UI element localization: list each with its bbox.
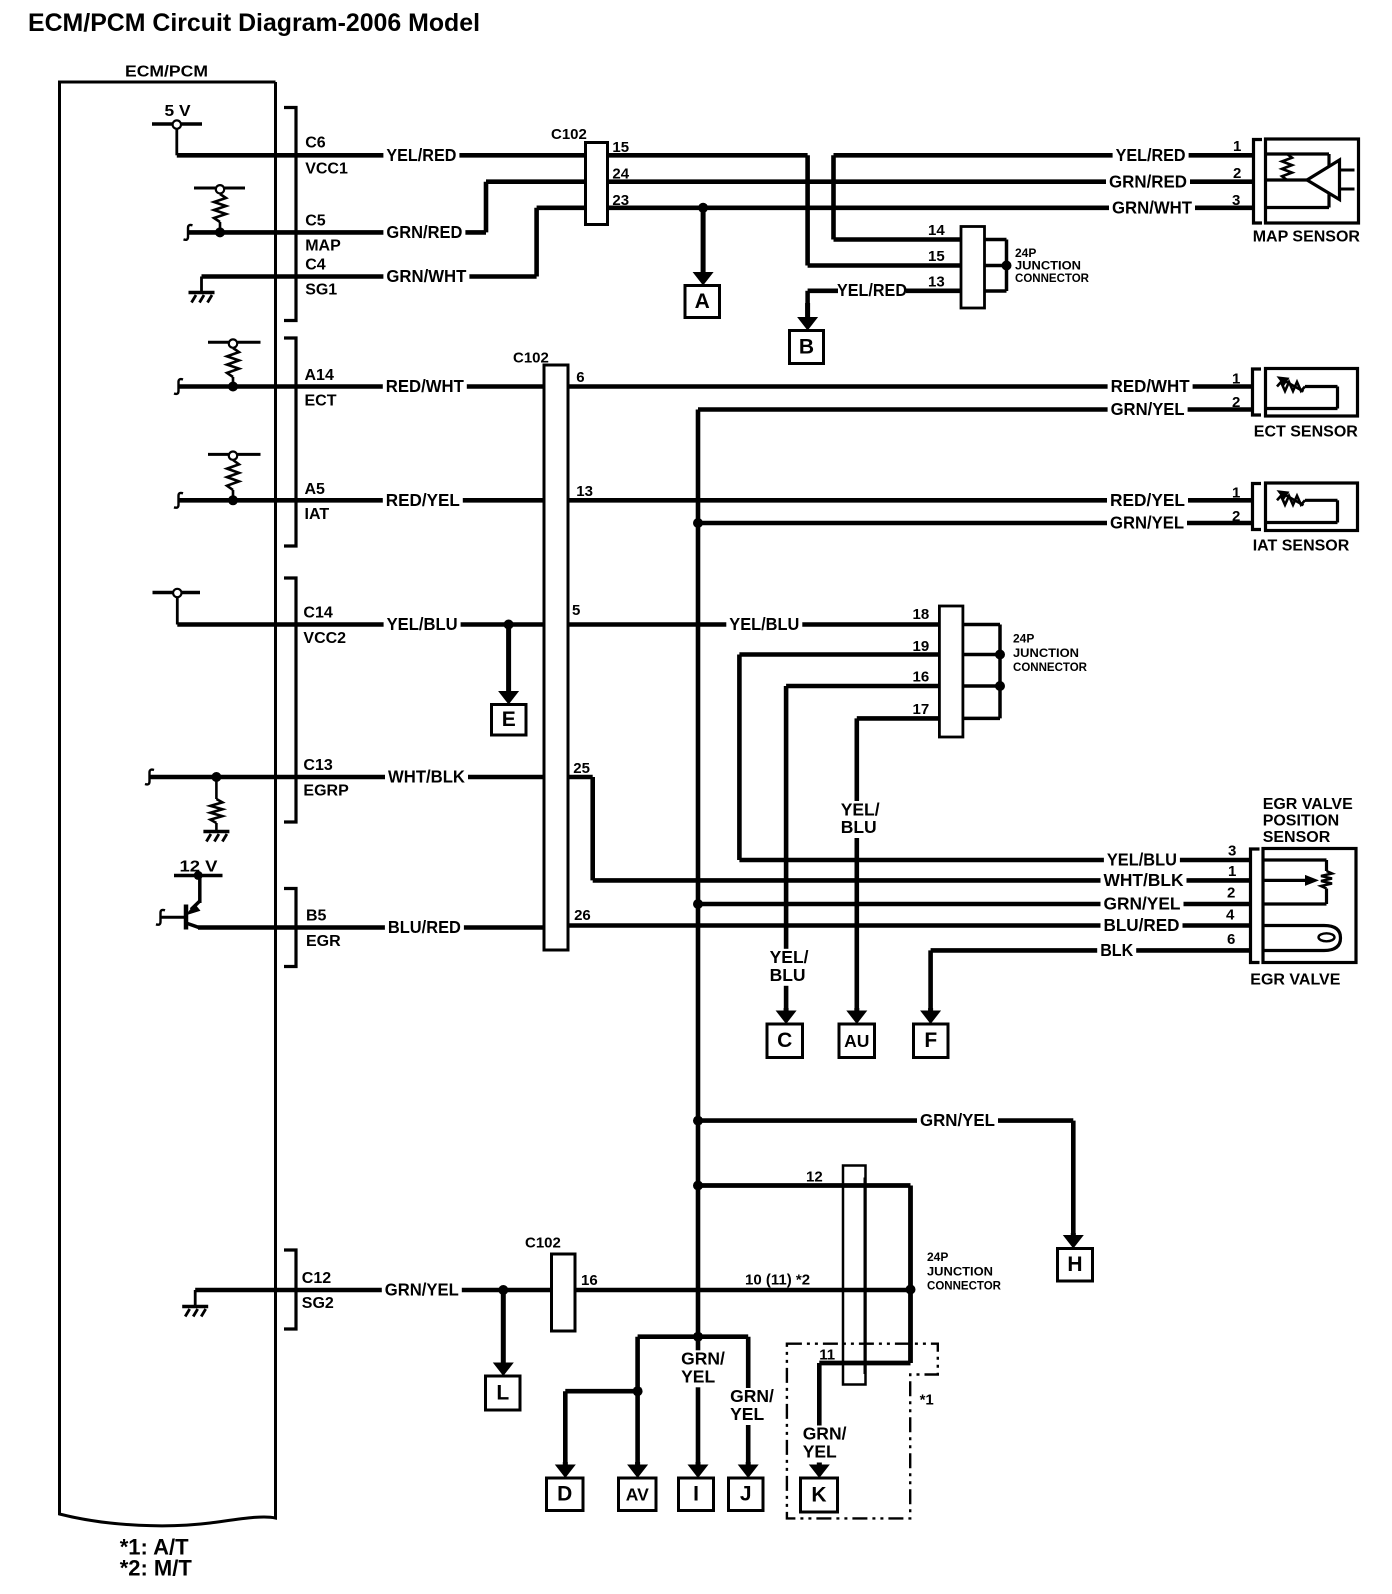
wire label GRN/RED MAP	[1106, 173, 1190, 191]
wire label YEL/BLU C line	[767, 949, 813, 986]
node AU box	[839, 1024, 875, 1058]
junction dot IAT GRN/YEL	[693, 518, 703, 528]
wire label GRN/YEL I line	[679, 1350, 726, 1387]
svg-text:F: F	[924, 1029, 937, 1052]
junction dot EGR GRN/YEL	[693, 899, 703, 909]
hook at A14 wire	[174, 379, 183, 394]
arrow to E	[506, 625, 511, 693]
hook at C13 wire	[145, 770, 154, 785]
IAT sensor connector	[1253, 484, 1262, 530]
svg-text:*1: *1	[920, 1392, 934, 1409]
svg-text:C102: C102	[551, 126, 587, 143]
svg-text:C4: C4	[305, 257, 326, 274]
junction dot bus pin 10	[906, 1285, 916, 1295]
svg-text:BLU/RED: BLU/RED	[388, 917, 461, 937]
svg-text:GRN/YEL: GRN/YEL	[385, 1280, 459, 1300]
IAT sensor box	[1266, 483, 1358, 531]
wire label GRN/WHT C4	[383, 268, 469, 286]
svg-text:AU: AU	[844, 1031, 869, 1051]
wire A5 RED/YEL row to IAT pin 1	[179, 498, 1256, 503]
24P junction connector first	[961, 227, 985, 309]
wire label YEL/RED MAP	[1113, 146, 1189, 164]
wire drop to AU arrow	[854, 718, 859, 1011]
wire label GRN/WHT MAP	[1109, 199, 1195, 217]
svg-text:*2: M/T: *2: M/T	[120, 1556, 193, 1581]
arrow to AU	[854, 1008, 859, 1012]
12V supply symbol	[174, 874, 223, 878]
svg-text:1: 1	[1232, 371, 1240, 388]
svg-text:B5: B5	[306, 908, 327, 925]
svg-text:BLK: BLK	[1100, 940, 1133, 960]
transistor Q1 arrow	[185, 904, 200, 916]
svg-text:VCC2: VCC2	[303, 630, 346, 647]
ground at SG1	[200, 277, 203, 292]
wire label WHT/BLK C13	[385, 768, 468, 786]
svg-text:6: 6	[576, 369, 584, 386]
wire label RED/YEL A5	[383, 491, 463, 509]
node D box	[547, 1478, 584, 1511]
svg-text:C13: C13	[303, 757, 332, 774]
junction dot A14 resistor	[228, 382, 238, 392]
wire label GRN/RED C5	[383, 223, 465, 241]
svg-text:ECT: ECT	[305, 393, 337, 410]
svg-text:C5: C5	[305, 213, 326, 230]
svg-text:YEL/RED: YEL/RED	[837, 280, 907, 300]
junction dot D/AV branch	[633, 1386, 643, 1396]
connector C102 first	[586, 143, 608, 225]
svg-text:CONNECTOR: CONNECTOR	[1013, 660, 1087, 674]
wire junction pin 19 YEL/BLU	[739, 652, 939, 657]
wire junction pin 17 YEL/BLU	[857, 716, 940, 721]
node K box	[801, 1478, 838, 1512]
5V supply symbol	[152, 122, 202, 126]
svg-text:E: E	[502, 708, 516, 731]
svg-text:IAT SENSOR: IAT SENSOR	[1253, 538, 1350, 555]
svg-text:RED/WHT: RED/WHT	[1111, 376, 1190, 396]
svg-text:3: 3	[1232, 192, 1240, 209]
wire label YEL/BLU AU line	[838, 801, 884, 838]
svg-text:25: 25	[573, 760, 590, 777]
junction bus first dot	[1002, 261, 1012, 271]
svg-text:24: 24	[612, 166, 629, 183]
svg-text:GRN/WHT: GRN/WHT	[1112, 197, 1192, 217]
IAT thermistor arrow	[1285, 495, 1304, 506]
svg-text:YEL/RED: YEL/RED	[1116, 145, 1186, 165]
transistor Q1 base bar	[184, 905, 189, 930]
wire drop to J	[746, 1337, 751, 1465]
svg-text:2: 2	[1233, 165, 1241, 182]
svg-text:GRN/YEL: GRN/YEL	[1104, 894, 1181, 914]
wire label GRN/YEL EGR2	[1101, 895, 1184, 913]
wire junction pin 16 YEL/BLU	[786, 684, 939, 689]
svg-text:YEL/BLU: YEL/BLU	[387, 614, 458, 634]
MAP sensor connector	[1254, 140, 1263, 224]
svg-text:C102: C102	[513, 350, 549, 367]
svg-text:GRN/RED: GRN/RED	[1109, 171, 1187, 191]
arrow to J	[746, 1462, 751, 1466]
wire MAP YEL/RED from junction pin 14	[831, 155, 836, 239]
node C box	[767, 1024, 803, 1058]
EGR position sensor resistor	[1263, 858, 1327, 861]
svg-text:16: 16	[913, 669, 930, 686]
svg-text:18: 18	[913, 606, 930, 623]
svg-text:10 (11) *2: 10 (11) *2	[745, 1272, 810, 1289]
svg-text:C102: C102	[525, 1235, 561, 1252]
svg-text:24P: 24P	[1013, 632, 1034, 646]
wire label GRN/YEL IAT	[1107, 514, 1187, 532]
svg-text:SG2: SG2	[302, 1295, 334, 1312]
wire BLK to EGR valve pin 6	[931, 948, 1256, 953]
ground at SG2	[194, 1290, 197, 1305]
junction dot A5 resistor	[228, 495, 238, 505]
wire label GRN/YEL ECT	[1108, 401, 1188, 419]
24P junction connector second	[939, 606, 963, 737]
svg-text:13: 13	[576, 483, 593, 500]
wire label YEL/BLU EGR3	[1104, 851, 1180, 869]
connector bracket B5-EGR	[284, 889, 296, 967]
svg-text:4: 4	[1226, 907, 1235, 924]
node F box	[914, 1024, 949, 1058]
svg-text:EGRP: EGRP	[303, 783, 349, 800]
A/T M/T dash-dot box	[787, 1344, 938, 1519]
svg-text:ECM/PCM Circuit Diagram-2006 M: ECM/PCM Circuit Diagram-2006 Model	[28, 9, 480, 37]
wire label GRN/YEL J line	[728, 1388, 775, 1425]
node H box	[1058, 1249, 1093, 1282]
wire C6/VCC1 YEL/RED row to C102 pin 15	[177, 153, 808, 158]
svg-text:GRN/: GRN/	[730, 1386, 774, 1406]
svg-text:A5: A5	[305, 481, 326, 498]
wire label BLK EGR6	[1097, 941, 1136, 959]
arrow to D	[563, 1462, 568, 1466]
wire pin 15 drop to junction connector	[805, 155, 810, 265]
arrow to I	[696, 1462, 701, 1466]
svg-text:ECT SENSOR: ECT SENSOR	[1254, 424, 1358, 441]
wire label YEL/RED C6	[383, 146, 459, 164]
svg-text:JUNCTION: JUNCTION	[1013, 646, 1079, 660]
junction dot pin 12 branch	[693, 1181, 703, 1191]
svg-text:12: 12	[806, 1169, 823, 1186]
junction dot node A	[698, 203, 708, 213]
hook at C5 wire	[184, 225, 193, 240]
svg-text:1: 1	[1228, 863, 1236, 880]
arrow to K	[817, 1462, 822, 1466]
svg-text:C14: C14	[303, 605, 332, 622]
svg-text:15: 15	[928, 248, 945, 265]
junction dot node E	[504, 620, 514, 630]
svg-text:JUNCTION: JUNCTION	[927, 1264, 993, 1278]
svg-text:YEL: YEL	[803, 1442, 837, 1462]
ground below C13 resistor	[203, 830, 229, 834]
junction dot C13 resistor	[211, 772, 221, 782]
svg-text:GRN/YEL: GRN/YEL	[1110, 513, 1184, 533]
wire ECT GRN/YEL row	[698, 407, 1256, 412]
connector bracket C14-EGRP	[284, 578, 296, 822]
svg-text:YEL: YEL	[681, 1367, 715, 1387]
svg-text:YEL/BLU: YEL/BLU	[729, 614, 799, 634]
wire drop to AV	[635, 1337, 640, 1465]
junction dot GRN/YEL H branch	[693, 1116, 703, 1126]
svg-text:24P: 24P	[927, 1250, 948, 1264]
wire B5 BLU/RED row	[198, 925, 568, 930]
ECT sensor box	[1266, 369, 1358, 417]
wire A14 RED/WHT row to ECT pin 1	[179, 384, 1256, 389]
svg-text:17: 17	[913, 701, 930, 718]
arrow to B elbow	[805, 291, 810, 318]
ECT thermistor arrow	[1285, 381, 1304, 392]
svg-text:H: H	[1067, 1253, 1082, 1276]
svg-text:14: 14	[928, 222, 945, 239]
svg-text:13: 13	[928, 274, 945, 291]
svg-text:16: 16	[581, 1272, 598, 1289]
MAP sensor output stubs	[1340, 169, 1355, 172]
svg-text:GRN/YEL: GRN/YEL	[920, 1110, 995, 1130]
svg-text:RED/YEL: RED/YEL	[1110, 490, 1185, 510]
svg-text:GRN/YEL: GRN/YEL	[1111, 399, 1185, 419]
wire label RED/WHT A14	[383, 378, 467, 396]
connector bracket C6-SG1	[284, 108, 296, 321]
arrow to H	[1071, 1233, 1076, 1237]
svg-text:WHT/BLK: WHT/BLK	[1104, 870, 1184, 890]
svg-text:POSITION: POSITION	[1263, 813, 1339, 830]
transistor Q1 emitter diagonal	[186, 923, 200, 928]
connector C102 third	[552, 1254, 576, 1331]
svg-text:BLU: BLU	[841, 817, 877, 837]
wire C5/MAP GRN/RED row	[189, 230, 487, 235]
MAP sensor box	[1266, 139, 1359, 223]
IAT thermistor	[1277, 496, 1305, 505]
svg-text:23: 23	[612, 192, 629, 209]
wire label GRN/YEL K line	[800, 1426, 847, 1463]
svg-text:2: 2	[1227, 885, 1235, 902]
svg-text:15: 15	[612, 139, 629, 156]
svg-text:GRN/RED: GRN/RED	[386, 222, 462, 242]
svg-text:CONNECTOR: CONNECTOR	[927, 1279, 1001, 1293]
junction dot L branch	[498, 1285, 508, 1295]
svg-text:C12: C12	[302, 1270, 331, 1287]
arrow to L	[501, 1290, 506, 1364]
arrow to B	[805, 303, 810, 319]
EGR sensor connector	[1251, 849, 1260, 963]
wire YEL/RED to MAP sensor pin 1	[834, 153, 1257, 158]
svg-text:YEL: YEL	[730, 1404, 764, 1424]
wire IAT GRN/YEL row	[698, 521, 1256, 526]
node E box	[492, 705, 527, 736]
junction dot bottom branch	[693, 1332, 703, 1342]
wire YEL/BLU to EGR position sensor pin 3	[739, 858, 1256, 863]
svg-text:SG1: SG1	[305, 282, 337, 299]
wire C13 WHT/BLK row	[150, 775, 593, 780]
svg-text:L: L	[496, 1381, 509, 1404]
connector C102 second	[544, 365, 568, 950]
svg-text:I: I	[693, 1483, 699, 1506]
svg-text:2: 2	[1232, 394, 1240, 411]
svg-text:C6: C6	[305, 135, 326, 152]
svg-text:J: J	[740, 1483, 752, 1506]
wire label WHT/BLK EGR1	[1101, 871, 1187, 889]
hook at A5 wire	[174, 493, 183, 508]
svg-text:SENSOR: SENSOR	[1263, 829, 1331, 846]
wire junction bus loop bottom pin 11	[819, 1361, 910, 1366]
wire label RED/WHT ECT	[1108, 378, 1193, 396]
MAP sensor internal rails	[1266, 152, 1330, 155]
node AV box	[619, 1478, 657, 1511]
svg-text:A14: A14	[305, 367, 334, 384]
svg-text:BLU/RED: BLU/RED	[1104, 915, 1180, 935]
node I box	[679, 1478, 714, 1511]
arrow to A	[701, 208, 706, 274]
wire GRN/YEL branch to H	[698, 1118, 1073, 1123]
svg-text:11: 11	[819, 1347, 835, 1364]
svg-text:K: K	[811, 1483, 826, 1506]
EGR sensor box	[1263, 849, 1356, 963]
svg-text:GRN/WHT: GRN/WHT	[386, 266, 466, 286]
node B box	[790, 331, 824, 364]
wire pin 12 branch	[698, 1183, 911, 1188]
connector bracket A14-A5	[284, 338, 296, 546]
MAP sensor amplifier triangle	[1307, 160, 1340, 200]
svg-text:BLU: BLU	[770, 965, 806, 985]
ECT thermistor	[1277, 382, 1305, 391]
svg-text:1: 1	[1233, 138, 1241, 155]
svg-text:IAT: IAT	[305, 506, 330, 523]
svg-text:D: D	[557, 1483, 572, 1506]
arrow to AV	[635, 1462, 640, 1466]
wire C4/SG1 GRN/WHT row	[202, 274, 537, 279]
svg-text:5 V: 5 V	[165, 103, 191, 120]
transistor Q1 emitter wire	[161, 916, 186, 919]
svg-text:RED/YEL: RED/YEL	[386, 490, 460, 510]
resistor at C13/EGRP	[215, 777, 218, 799]
svg-text:1: 1	[1232, 485, 1240, 502]
svg-text:5: 5	[572, 602, 580, 619]
svg-text:WHT/BLK: WHT/BLK	[388, 767, 465, 787]
wire C14 YEL/BLU row to junction pin 18	[177, 622, 939, 627]
arrow to F	[928, 1008, 933, 1012]
ECM/PCM box outline	[60, 82, 276, 1526]
svg-text:EGR VALVE: EGR VALVE	[1263, 796, 1353, 813]
24P junction connector third	[843, 1166, 866, 1385]
wire branch row to D	[565, 1389, 637, 1394]
svg-text:C: C	[777, 1029, 792, 1052]
wire junction bus loop right edge	[908, 1186, 913, 1364]
resistor at C5/MAP	[194, 187, 245, 190]
wire label RED/YEL IAT	[1107, 491, 1188, 509]
svg-text:YEL/RED: YEL/RED	[386, 145, 456, 165]
node J box	[729, 1478, 764, 1511]
svg-text:3: 3	[1228, 843, 1236, 860]
svg-text:A: A	[695, 290, 710, 313]
wire pin 25 WHT/BLK drop	[590, 777, 595, 880]
svg-text:19: 19	[913, 638, 930, 655]
connector bracket C12-SG2	[284, 1250, 296, 1329]
junction dot C5 resistor	[215, 227, 225, 237]
wire label BLU/RED EGR4	[1101, 917, 1183, 935]
svg-text:EGR: EGR	[306, 933, 341, 950]
junction bus second	[963, 623, 1000, 627]
arrow to C	[784, 1008, 789, 1012]
svg-text:6: 6	[1227, 931, 1235, 948]
wire drop to D	[563, 1391, 568, 1465]
svg-text:VCC1: VCC1	[305, 161, 348, 178]
node A box	[685, 286, 720, 318]
wire pin 11 drop to K	[817, 1363, 822, 1465]
wire label YEL/BLU mid	[726, 616, 802, 634]
svg-text:EGR VALVE: EGR VALVE	[1250, 972, 1340, 989]
VCC2 supply symbol	[153, 591, 201, 595]
svg-text:ECM/PCM: ECM/PCM	[125, 64, 208, 81]
svg-text:MAP SENSOR: MAP SENSOR	[1253, 229, 1361, 246]
transistor Q1 collector	[198, 876, 202, 904]
resistor at A5/IAT	[208, 453, 261, 456]
wire label GRN/YEL C12	[382, 1281, 462, 1299]
resistor at A14/ECT	[208, 341, 261, 344]
ECT sensor connector	[1253, 369, 1262, 415]
svg-text:MAP: MAP	[305, 238, 341, 255]
svg-text:YEL/BLU: YEL/BLU	[1107, 850, 1177, 870]
svg-text:CONNECTOR: CONNECTOR	[1015, 271, 1089, 285]
junction bus first	[985, 238, 1007, 242]
wire label BLU/RED B5	[385, 919, 464, 937]
svg-text:RED/WHT: RED/WHT	[386, 376, 464, 396]
svg-text:YEL/: YEL/	[770, 947, 809, 967]
wire branch row to D/AV/J	[638, 1334, 749, 1339]
svg-text:12 V: 12 V	[180, 859, 218, 876]
wire C12 GRN/YEL row / pin 16 to pin 10	[195, 1288, 910, 1293]
svg-text:26: 26	[574, 907, 591, 924]
EGR position sensor wiper	[1263, 879, 1306, 882]
wire drop to C arrow	[784, 686, 789, 1011]
wire label GRN/YEL H	[917, 1112, 998, 1130]
wire main GRN/YEL vertical	[696, 410, 701, 1466]
junction bus second dots	[995, 650, 1005, 660]
node L box	[486, 1376, 521, 1410]
svg-text:B: B	[799, 335, 814, 358]
wire pin 13 YEL/RED stub to junction	[808, 288, 838, 293]
MAP sensor internal resistor	[1282, 154, 1292, 180]
svg-text:AV: AV	[626, 1485, 649, 1505]
EGR valve solenoid	[1263, 926, 1341, 951]
wire GRN/YEL to EGR position sensor pin 2	[698, 902, 1256, 907]
wire label YEL/BLU C14	[384, 616, 461, 634]
svg-text:2: 2	[1232, 508, 1240, 525]
